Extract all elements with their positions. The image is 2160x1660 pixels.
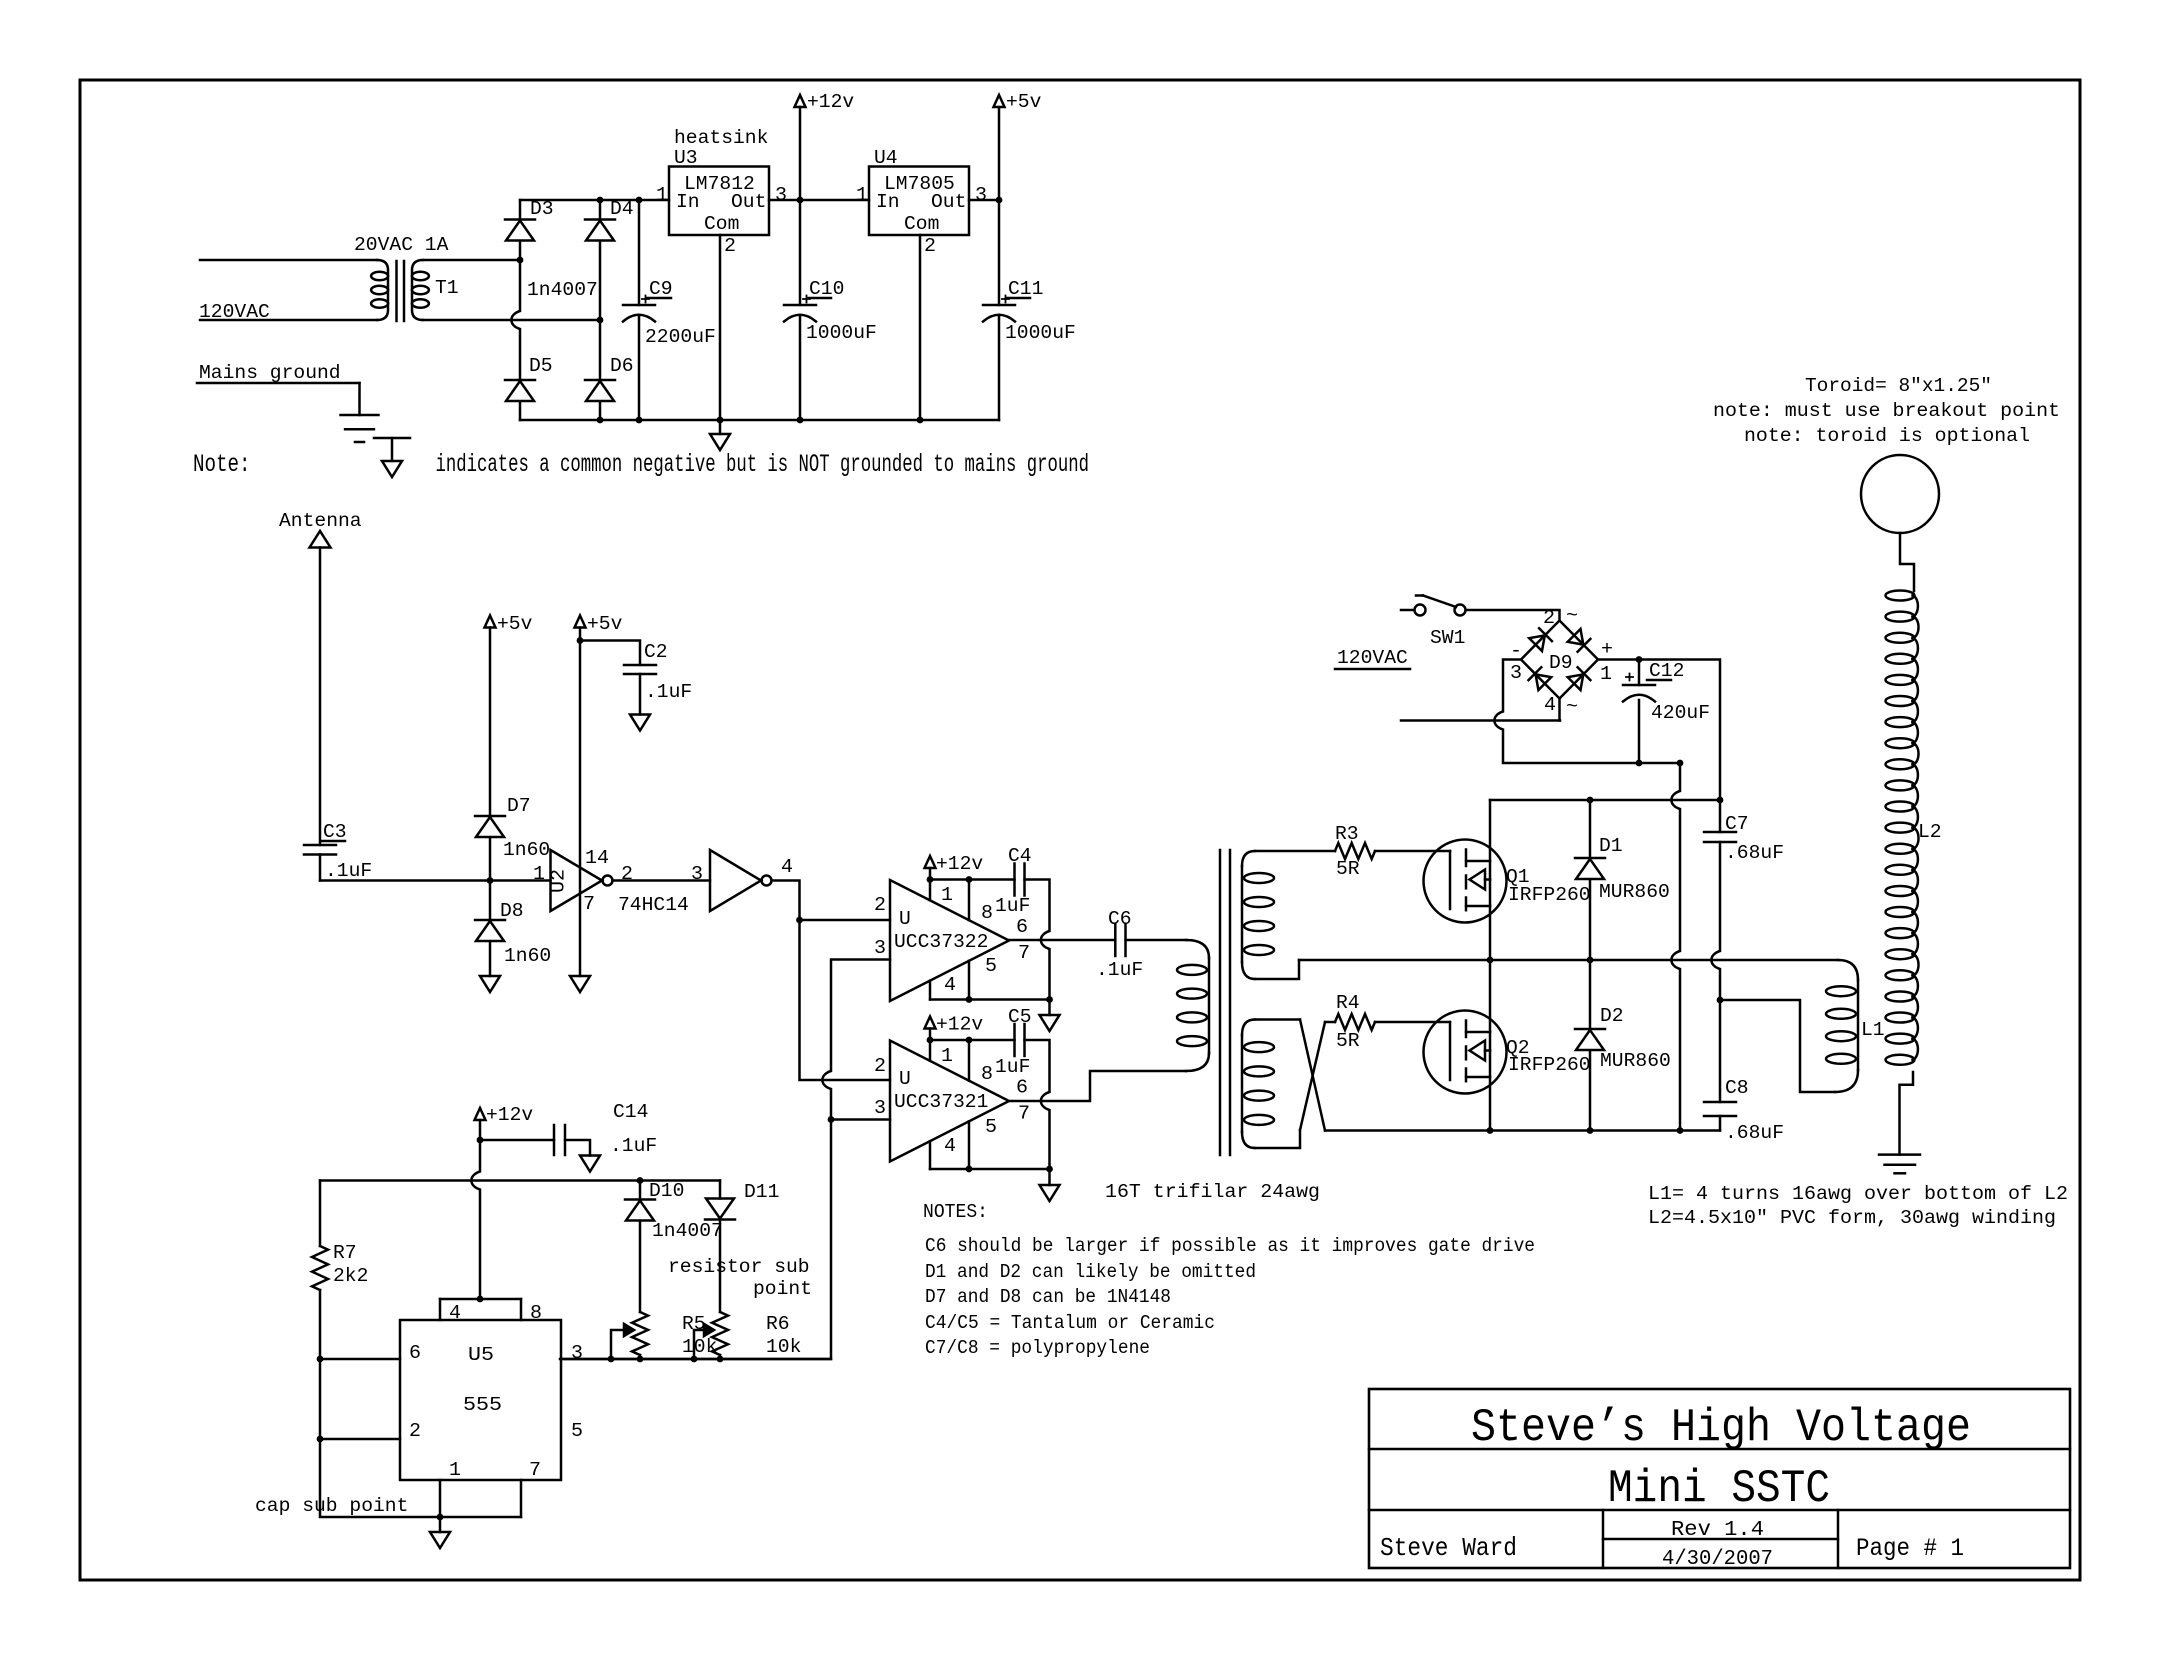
label C8 <box>1725 1077 1749 1099</box>
pin 6 <box>1016 1077 1028 1099</box>
node <box>437 1514 444 1521</box>
svg-text:C6: C6 <box>1108 908 1132 930</box>
wire input <box>320 879 551 882</box>
node <box>1636 656 1643 663</box>
power +12v <box>925 856 936 880</box>
svg-text:D6: D6 <box>610 355 634 377</box>
node <box>927 876 934 883</box>
pin 1 <box>533 863 545 885</box>
wire Q2 source <box>1489 1077 1492 1131</box>
node <box>717 1356 724 1363</box>
label In <box>876 191 900 213</box>
svg-text:D4: D4 <box>610 198 634 220</box>
wire C5 return <box>1025 1040 1050 1169</box>
pin 2 <box>924 235 936 257</box>
node <box>966 1037 973 1044</box>
power +5v <box>575 616 586 641</box>
GDT secondary top <box>1242 851 1274 979</box>
wire pin2 U4 <box>919 235 922 420</box>
wire L1 feed <box>1720 1000 1835 1092</box>
svg-text:3: 3 <box>691 863 703 885</box>
label +5v <box>587 613 623 635</box>
svg-text:1: 1 <box>941 884 953 906</box>
svg-text:1: 1 <box>1600 663 1612 685</box>
pot R5 <box>611 1312 648 1359</box>
svg-text:heatsink: heatsink <box>674 127 768 149</box>
svg-text:IRFP260: IRFP260 <box>1508 884 1591 906</box>
label 1n4007 <box>527 279 598 301</box>
pin 4 <box>1544 694 1556 716</box>
node <box>1046 1166 1053 1173</box>
capacitor C3 <box>304 845 336 881</box>
label C10 <box>807 278 844 300</box>
pin 7 <box>529 1459 541 1481</box>
svg-text:Mini SSTC: Mini SSTC <box>1608 1463 1830 1515</box>
value MUR860 <box>1600 1050 1671 1072</box>
resistor R4 <box>1335 1014 1375 1030</box>
wire <box>423 259 520 262</box>
svg-text:3: 3 <box>571 1342 583 1364</box>
node <box>1587 957 1594 964</box>
svg-text:Antenna: Antenna <box>279 510 362 532</box>
node <box>1677 760 1684 767</box>
wire <box>769 199 869 202</box>
label + <box>1601 638 1613 660</box>
svg-text:.1uF: .1uF <box>610 1135 657 1157</box>
label Com <box>904 213 939 235</box>
switch SW1 <box>1401 596 1466 616</box>
svg-text:1: 1 <box>856 184 868 206</box>
svg-text:4/30/2007: 4/30/2007 <box>1662 1548 1773 1571</box>
GDT core <box>1220 850 1230 1155</box>
pin1 stub <box>929 880 932 901</box>
label L2 <box>1918 821 1942 843</box>
svg-text:U3: U3 <box>674 147 698 169</box>
svg-text:1n60: 1n60 <box>504 945 551 967</box>
svg-text:3: 3 <box>874 937 886 959</box>
diode D4 <box>585 200 615 320</box>
svg-text:3: 3 <box>775 184 787 206</box>
wire mid rail <box>1299 960 1858 980</box>
value 1n60 <box>504 945 551 967</box>
label R3 <box>1335 823 1359 845</box>
net label Antenna <box>279 510 362 532</box>
node <box>927 1037 934 1044</box>
note breakout <box>1713 400 2060 422</box>
resistor R3 <box>1335 843 1375 859</box>
label Mains ground <box>197 362 360 384</box>
label U2 <box>548 869 570 893</box>
svg-text:.1uF: .1uF <box>645 681 692 703</box>
diode D2 MUR860 <box>1575 960 1605 1131</box>
svg-text:1n60: 1n60 <box>503 839 550 861</box>
wire bus negative <box>520 419 999 422</box>
pin 4 <box>944 1135 956 1157</box>
wire bus45 <box>930 1168 1050 1171</box>
svg-text:C6 should be larger if possibl: C6 should be larger if possible as it im… <box>925 1235 1535 1257</box>
svg-text:C14: C14 <box>613 1101 648 1123</box>
pin 2 <box>724 235 736 257</box>
label D3 <box>530 198 554 220</box>
node <box>577 637 584 644</box>
svg-text:Mains ground: Mains ground <box>199 362 341 384</box>
wire pin14-7 <box>579 641 582 977</box>
pin4 stub <box>929 981 932 1000</box>
value 10k <box>766 1336 801 1358</box>
value .1uF <box>1096 959 1143 981</box>
label U4 <box>874 147 898 169</box>
node <box>517 257 524 264</box>
note C7C8 <box>925 1337 1150 1359</box>
svg-text:14: 14 <box>585 847 609 869</box>
transformer T1 <box>371 260 429 321</box>
svg-text:U2: U2 <box>548 869 570 893</box>
note C6 <box>925 1235 1535 1257</box>
node <box>487 877 494 884</box>
node <box>317 1356 324 1363</box>
svg-text:6: 6 <box>1016 1077 1028 1099</box>
wire bus45 <box>930 998 1050 1001</box>
node <box>317 1436 324 1443</box>
label C4 <box>1008 845 1032 867</box>
label ~ <box>1566 696 1578 718</box>
value 1uF <box>995 895 1030 917</box>
svg-text:C4/C5 = Tantalum or Ceramic: C4/C5 = Tantalum or Ceramic <box>925 1312 1215 1334</box>
label LM7805 <box>884 173 955 195</box>
wire minus drop <box>1671 763 1680 1131</box>
svg-text:Rev 1.4: Rev 1.4 <box>1671 1519 1764 1542</box>
svg-text:7: 7 <box>1018 942 1030 964</box>
label R4 <box>1336 992 1360 1014</box>
svg-text:R4: R4 <box>1336 992 1360 1014</box>
label U <box>899 1068 911 1090</box>
pin 5 <box>571 1420 583 1442</box>
node <box>796 917 803 924</box>
regulator U4 LM7805 <box>869 167 969 236</box>
GDT secondary lower <box>1242 1020 1274 1149</box>
label +5v <box>1006 91 1042 113</box>
node <box>1717 797 1724 804</box>
svg-text:In: In <box>676 191 700 213</box>
diode D7 <box>475 816 505 881</box>
label C11 <box>1006 278 1043 300</box>
pin 8 <box>530 1302 542 1324</box>
wire pin3 lower <box>831 1118 890 1121</box>
svg-text:C2: C2 <box>644 641 668 663</box>
wire L2 bottom <box>1900 1072 1914 1155</box>
transistor Q1 IRFP260 <box>1424 840 1507 923</box>
diode D1 MUR860 <box>1575 800 1605 960</box>
svg-text:4: 4 <box>781 856 793 878</box>
svg-text:6: 6 <box>409 1342 421 1364</box>
svg-text:2: 2 <box>874 1055 886 1077</box>
subtitle Mini SSTC <box>1608 1463 1830 1515</box>
pin4 stub <box>929 1141 932 1169</box>
diode D11 <box>705 1181 735 1313</box>
net label 120VAC <box>199 301 270 323</box>
value 1uF <box>995 1056 1030 1078</box>
ground earth RF <box>1879 1155 1920 1174</box>
svg-text:5R: 5R <box>1336 858 1360 880</box>
svg-text:Steve Ward: Steve Ward <box>1380 1533 1517 1563</box>
svg-text:+: + <box>1601 638 1613 660</box>
svg-text:4: 4 <box>449 1302 461 1324</box>
node <box>597 317 604 324</box>
svg-text:3: 3 <box>975 184 987 206</box>
label U3 <box>674 147 698 169</box>
node <box>966 876 973 883</box>
wire toroid stem <box>1900 533 1914 591</box>
label C6 <box>1108 908 1132 930</box>
svg-text:UCC37322: UCC37322 <box>894 931 988 953</box>
svg-text:2: 2 <box>1543 607 1555 629</box>
label point <box>753 1278 812 1300</box>
svg-text:NOTES:: NOTES: <box>923 1201 988 1223</box>
svg-text:.68uF: .68uF <box>1725 1122 1784 1144</box>
svg-text:D11: D11 <box>744 1181 779 1203</box>
value IRFP260 <box>1508 1054 1591 1076</box>
svg-text:+5v: +5v <box>1006 91 1042 113</box>
diode D10 <box>625 1181 655 1313</box>
value 1000uF <box>806 322 877 344</box>
power +5v <box>994 95 1005 200</box>
svg-text:8: 8 <box>530 1302 542 1324</box>
wire ac bottom <box>1401 699 1560 721</box>
svg-text:.1uF: .1uF <box>1096 959 1143 981</box>
svg-text:1: 1 <box>449 1459 461 1481</box>
svg-text:3: 3 <box>1510 662 1522 684</box>
wire Q1 source <box>1489 906 1492 960</box>
wire plus <box>1598 660 1720 801</box>
label D11 <box>744 1181 779 1203</box>
wire <box>423 319 600 322</box>
svg-text:L1: L1 <box>1861 1019 1885 1041</box>
label R7 <box>333 1242 357 1264</box>
label D5 <box>529 355 553 377</box>
note toroid optional <box>1744 425 2030 447</box>
svg-text:1n4007: 1n4007 <box>527 279 598 301</box>
wire <box>319 1359 322 1439</box>
label In <box>676 191 700 213</box>
wire C4 return <box>1025 880 1050 1000</box>
node <box>1487 1127 1494 1134</box>
value .1uF <box>610 1135 657 1157</box>
capacitor C10 <box>784 200 816 420</box>
svg-text:~: ~ <box>1566 696 1578 718</box>
note L1 turns <box>1648 1183 2068 1205</box>
inductor L2 secondary <box>1886 591 1919 1065</box>
svg-text:Page # 1: Page # 1 <box>1856 1534 1964 1563</box>
svg-text:D1: D1 <box>1599 835 1623 857</box>
node <box>797 417 804 424</box>
wire <box>580 641 640 666</box>
pin 1 <box>941 884 953 906</box>
wire Q2 drain <box>1489 960 1492 1032</box>
capacitor C5 <box>1015 1024 1025 1056</box>
label L1 <box>1861 1019 1885 1041</box>
value .1uF <box>645 681 692 703</box>
svg-text:2: 2 <box>409 1420 421 1442</box>
label ~ <box>1566 605 1578 627</box>
label C9 <box>647 278 673 300</box>
svg-text:C3: C3 <box>323 821 347 843</box>
node <box>1487 957 1494 964</box>
author Steve Ward <box>1380 1533 1517 1563</box>
node <box>637 1356 644 1363</box>
wire <box>613 879 711 882</box>
pin 2 <box>409 1420 421 1442</box>
svg-text:.68uF: .68uF <box>1725 842 1784 864</box>
net label 120VAC <box>1335 647 1410 669</box>
label +5v <box>497 613 533 635</box>
svg-text:2200uF: 2200uF <box>645 326 716 348</box>
node <box>1587 1127 1594 1134</box>
svg-text:2: 2 <box>724 235 736 257</box>
svg-text:5: 5 <box>985 1116 997 1138</box>
label UCC37322 <box>894 931 988 953</box>
svg-text:1n4007: 1n4007 <box>652 1220 723 1242</box>
svg-text:5: 5 <box>985 955 997 977</box>
label +12v <box>807 91 854 113</box>
svg-text:7: 7 <box>583 893 595 915</box>
node <box>636 417 643 424</box>
svg-text:10k: 10k <box>682 1336 717 1358</box>
label 555 <box>463 1394 502 1416</box>
svg-text:5: 5 <box>571 1420 583 1442</box>
capacitor C12 <box>1623 660 1655 764</box>
ground common <box>710 420 730 450</box>
svg-text:+12v: +12v <box>807 91 854 113</box>
value 2k2 <box>333 1265 368 1287</box>
note D1D2 <box>925 1261 1256 1283</box>
svg-text:+5v: +5v <box>497 613 533 635</box>
pin 4 <box>781 856 793 878</box>
value 5R <box>1336 858 1360 880</box>
svg-text:7: 7 <box>1018 1103 1030 1125</box>
label Q2 <box>1506 1037 1530 1059</box>
svg-text:555: 555 <box>463 1394 502 1416</box>
svg-text:8: 8 <box>981 902 993 924</box>
svg-text:D9: D9 <box>1549 652 1573 674</box>
label T1 <box>435 277 459 299</box>
value 420uF <box>1651 702 1710 724</box>
svg-text:2: 2 <box>924 235 936 257</box>
capacitor C7 <box>1704 800 1736 1000</box>
label C14 <box>613 1101 648 1123</box>
svg-text:C10: C10 <box>809 278 844 300</box>
title block frame <box>1369 1389 2070 1568</box>
pin 1 <box>856 184 868 206</box>
diode D6 <box>585 320 615 420</box>
node <box>828 1116 835 1123</box>
svg-text:C11: C11 <box>1008 278 1043 300</box>
svg-text:1000uF: 1000uF <box>806 322 877 344</box>
wire output lower <box>1009 1071 1186 1101</box>
svg-text:L2: L2 <box>1918 821 1942 843</box>
driver U6 UCC37321 <box>890 1041 1009 1162</box>
svg-text:D7 and D8 can be 1N4148: D7 and D8 can be 1N4148 <box>925 1286 1171 1308</box>
label U <box>899 908 911 930</box>
value IRFP260 <box>1508 884 1591 906</box>
wire pin2 <box>320 1438 400 1441</box>
node <box>608 1356 615 1363</box>
wire to drivers input <box>772 881 891 1081</box>
wire pin2 U3 <box>719 235 722 420</box>
value .68uF <box>1725 1122 1784 1144</box>
rev <box>1671 1519 1764 1542</box>
inductor L1 <box>1826 980 1858 1092</box>
value 1n60 <box>503 839 550 861</box>
pin5 stub <box>968 1121 971 1169</box>
svg-text:resistor sub: resistor sub <box>668 1256 810 1278</box>
bridge D9 <box>1521 621 1598 699</box>
wire rail top <box>520 199 669 202</box>
svg-text:5R: 5R <box>1336 1030 1360 1052</box>
ground common <box>580 1156 600 1172</box>
diode D3 <box>505 200 535 260</box>
svg-text:MUR860: MUR860 <box>1600 1050 1671 1072</box>
capacitor C11 <box>983 200 1015 420</box>
svg-text:IRFP260: IRFP260 <box>1508 1054 1591 1076</box>
label Com <box>704 213 739 235</box>
node <box>637 1177 644 1184</box>
label 20VAC 1A <box>354 234 449 256</box>
wire sec1 top to R3 <box>1255 850 1335 853</box>
capacitor C14 <box>554 1125 565 1155</box>
diode D8 <box>475 881 505 977</box>
pin 8 <box>981 1063 993 1085</box>
svg-text:MUR860: MUR860 <box>1599 881 1670 903</box>
node <box>1677 1127 1684 1134</box>
svg-text:74HC14: 74HC14 <box>618 894 689 916</box>
svg-text:T1: T1 <box>435 277 459 299</box>
ground common <box>630 715 650 731</box>
wire vdd <box>930 878 1015 881</box>
pin 8 <box>981 902 993 924</box>
svg-text:4: 4 <box>944 1135 956 1157</box>
node <box>797 197 804 204</box>
note text <box>436 450 1090 479</box>
capacitor C2 <box>624 665 656 715</box>
pin 1 <box>941 1045 953 1067</box>
label Out <box>931 191 966 213</box>
pin8 stub <box>968 880 971 921</box>
pin 3 <box>874 937 886 959</box>
label Note: <box>193 450 251 479</box>
svg-text:R7: R7 <box>333 1242 357 1264</box>
value 5R <box>1336 1030 1360 1052</box>
svg-text:+12v: +12v <box>936 1014 983 1036</box>
svg-text:UCC37321: UCC37321 <box>894 1091 988 1113</box>
title text <box>1471 1402 1971 1454</box>
capacitor C9 <box>623 200 655 420</box>
wire R4 to gate <box>1375 1021 1450 1024</box>
regulator U3 LM7812 <box>669 167 769 236</box>
svg-text:D1 and D2 can likely be omitte: D1 and D2 can likely be omitted <box>925 1261 1256 1283</box>
pin 2 <box>874 1055 886 1077</box>
label NOTES: <box>923 1201 988 1223</box>
wire cross X <box>1255 1020 1335 1149</box>
wire sec1 bottom <box>1255 960 1299 979</box>
value 10k <box>682 1336 717 1358</box>
power +12v <box>475 1108 486 1140</box>
svg-text:D5: D5 <box>529 355 553 377</box>
wire R7 D10 D11 top <box>320 1179 720 1182</box>
svg-text:L1= 4 turns 16awg over bottom: L1= 4 turns 16awg over bottom of L2 <box>1648 1183 2068 1205</box>
transistor Q2 IRFP260 <box>1424 1011 1507 1094</box>
pin 7 <box>1018 942 1030 964</box>
svg-text:+12v: +12v <box>486 1104 533 1126</box>
